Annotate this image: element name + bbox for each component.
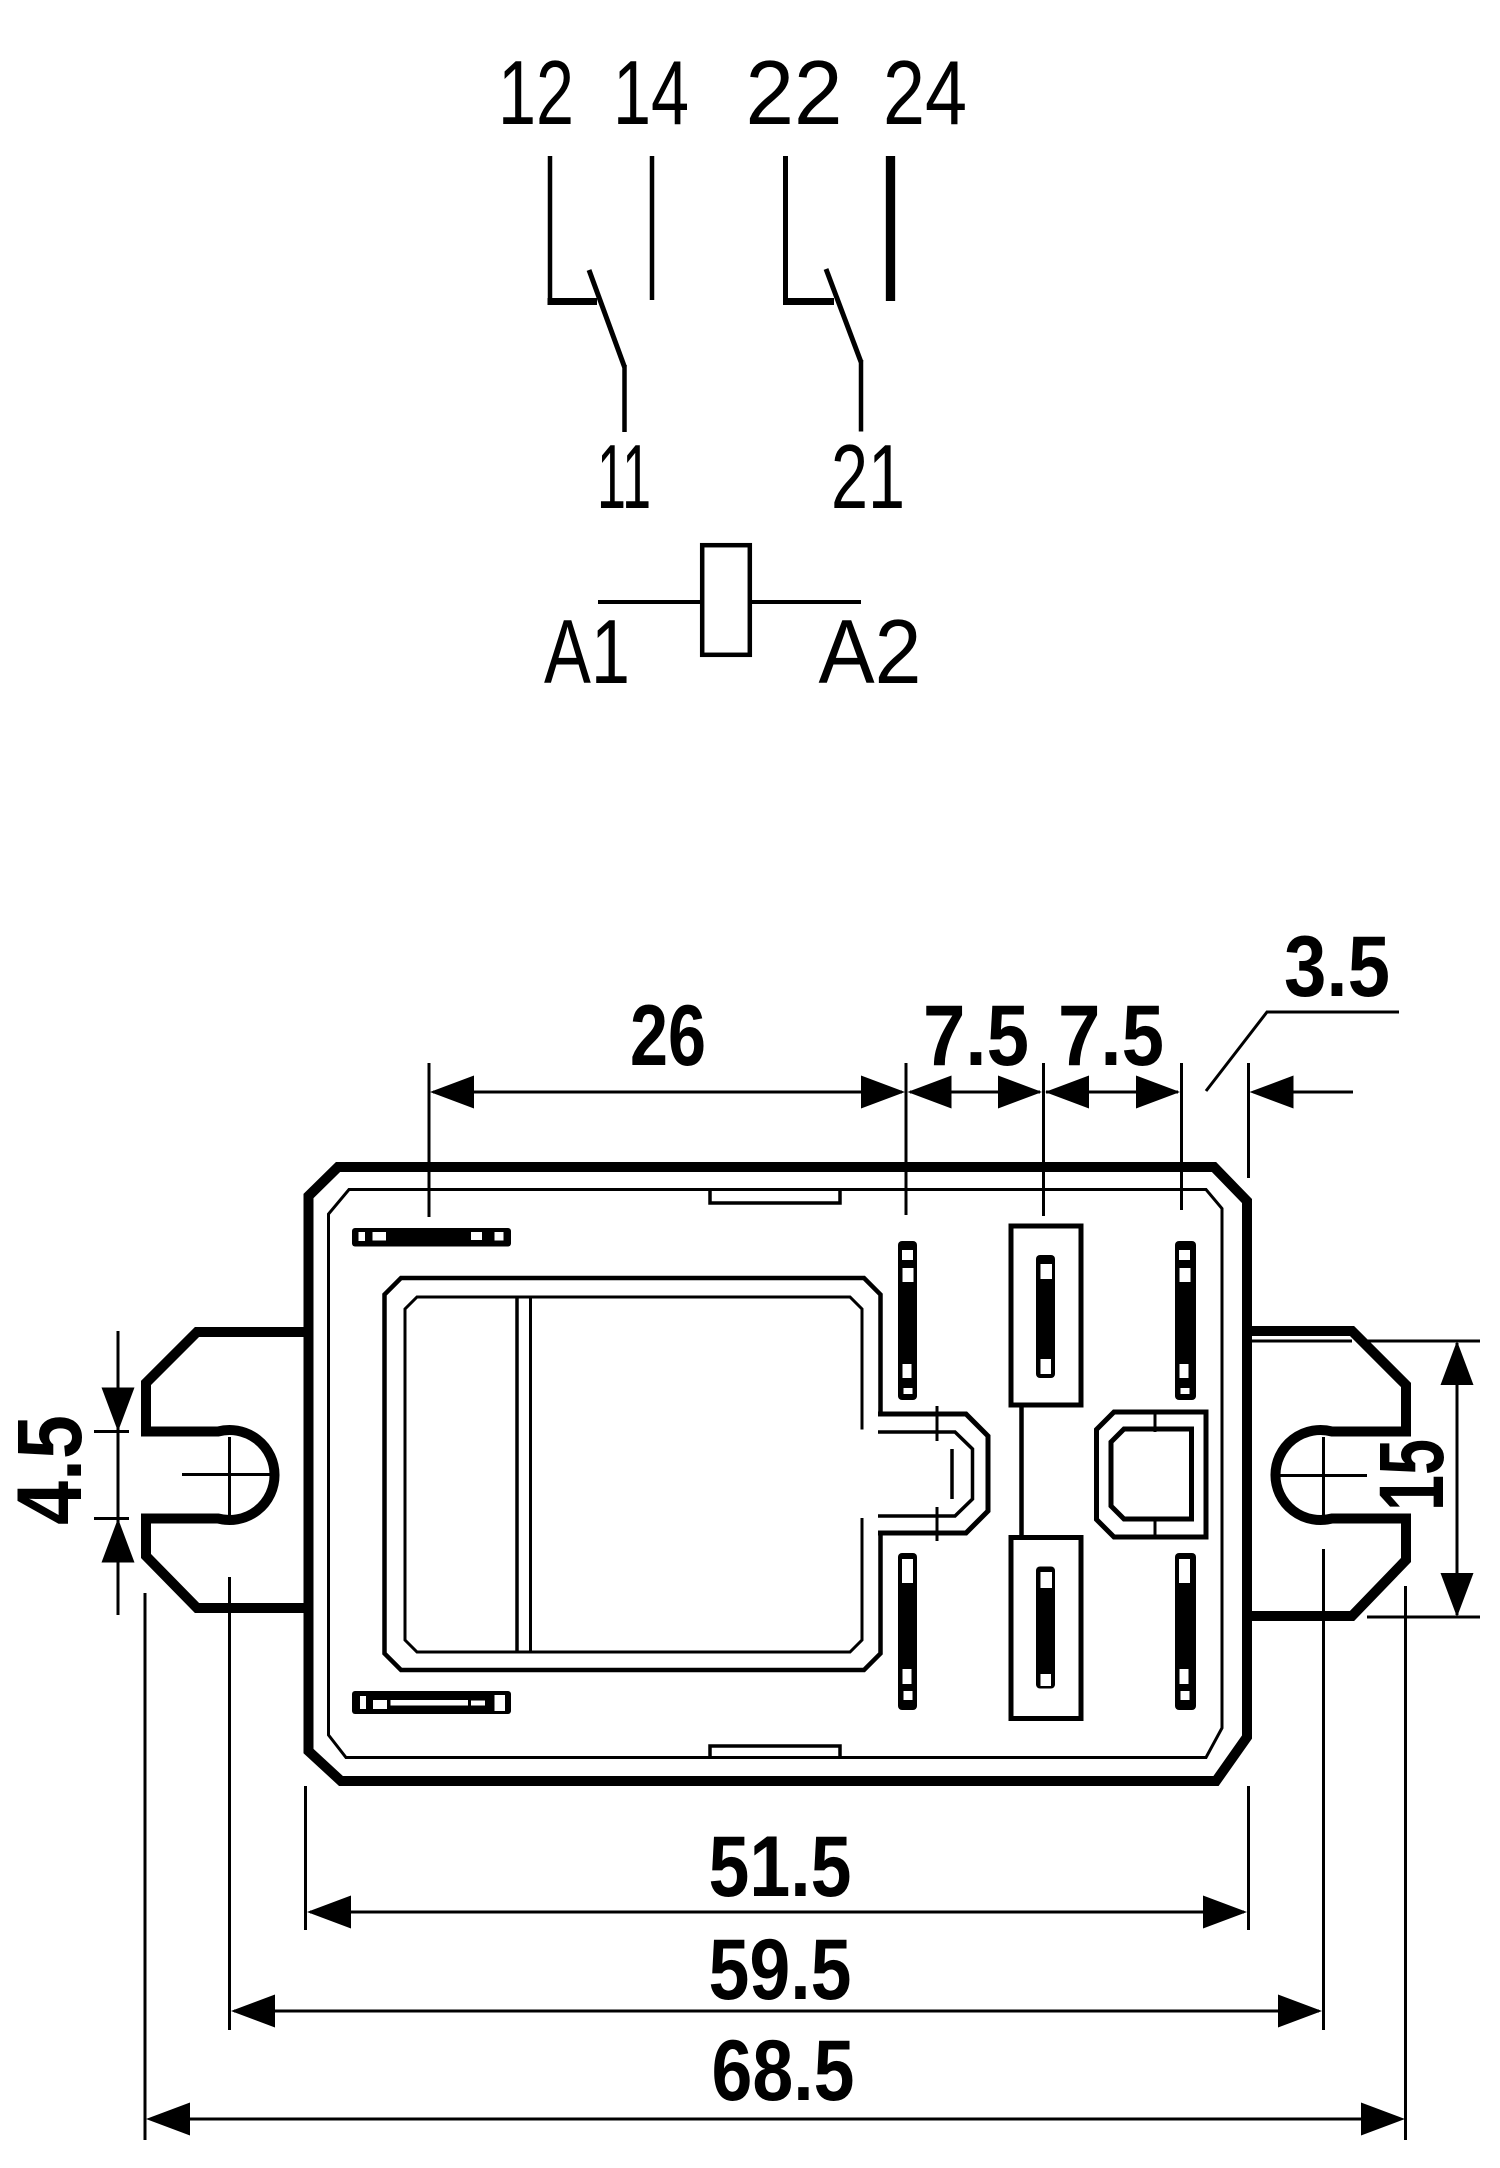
extension line 59.5 right upper	[1322, 1437, 1325, 1515]
extension line 51.5 left	[304, 1786, 307, 1930]
dimension line 7.5 right	[1046, 1091, 1178, 1094]
dimension line 7.5 left	[910, 1091, 1040, 1094]
arrow 68.5 left	[146, 2103, 190, 2136]
left mounting flange	[146, 1332, 308, 1608]
arrow 51.5 left	[307, 1896, 351, 1929]
marking slot top	[352, 1228, 511, 1247]
svg-text:7.5: 7.5	[1058, 988, 1164, 1084]
dimension tail 3.5	[1253, 1091, 1353, 1094]
coil terminal A1 housing	[1011, 1226, 1081, 1405]
wire terminal 24	[886, 156, 895, 301]
arrow 15 bottom	[1441, 1573, 1474, 1617]
arrow 26 left	[430, 1076, 474, 1109]
arrow 7.5R right	[1136, 1076, 1180, 1109]
arrow 68.5 right	[1361, 2103, 1405, 2136]
arrow 15 top	[1441, 1341, 1474, 1385]
tab tick top	[936, 1406, 939, 1441]
svg-text:59.5: 59.5	[709, 1922, 852, 2018]
wire terminal 22	[783, 156, 788, 299]
dimension line 15	[1456, 1343, 1459, 1615]
left slot center cross horizontal	[182, 1473, 274, 1476]
svg-text:A2: A2	[819, 602, 922, 703]
relay cover outer outline	[385, 1278, 881, 1670]
extension line x1181.5	[1180, 1063, 1183, 1210]
extension line 59.5 left lower	[228, 1577, 231, 2030]
arrow 59.5 right	[1278, 1995, 1322, 2028]
svg-text:14: 14	[613, 43, 689, 144]
cover divider line a	[515, 1297, 519, 1652]
keyhole structure inner	[1111, 1429, 1192, 1519]
keyhole tick top	[1154, 1410, 1157, 1432]
extension line x429	[428, 1063, 431, 1217]
arrow 3.5	[1250, 1076, 1294, 1109]
relay body outer outline	[309, 1167, 1248, 1781]
extension line x1043.5	[1042, 1063, 1045, 1216]
coil terminal tab slot edge	[950, 1449, 954, 1499]
bottom edge notch	[710, 1746, 840, 1757]
svg-text:22: 22	[746, 43, 843, 144]
svg-text:12: 12	[498, 43, 574, 144]
terminal slot 14	[1175, 1241, 1196, 1400]
coil U1	[702, 545, 750, 655]
dimension line 4.5	[117, 1331, 120, 1615]
arrow 7.5L right	[998, 1076, 1042, 1109]
leader line 3.5	[1206, 1012, 1399, 1091]
wire elbow pole2	[783, 298, 834, 305]
wire terminal 14	[650, 156, 655, 300]
extension line 59.5 left upper	[228, 1437, 231, 1515]
SCHEMATIC SECTION	[498, 43, 967, 703]
arrow 4.5 top	[102, 1388, 135, 1432]
arrow 7.5R left	[1045, 1076, 1089, 1109]
svg-text:11: 11	[597, 427, 651, 528]
top edge notch	[710, 1191, 840, 1203]
coil wire A2	[752, 600, 861, 604]
coil terminal tab outer	[878, 1414, 988, 1533]
arrow 26 right	[861, 1076, 905, 1109]
arrow 59.5 left	[231, 1995, 275, 2028]
arrow 4.5 bottom	[102, 1519, 135, 1563]
extension line 15 top	[1360, 1340, 1480, 1343]
extension line 68.5 right	[1404, 1586, 1407, 2140]
dimension line 51.5	[310, 1911, 1244, 1914]
wire lead 11	[622, 365, 627, 432]
svg-text:A1: A1	[544, 602, 630, 703]
svg-text:4.5: 4.5	[0, 1415, 101, 1525]
keyhole tick bottom	[1154, 1517, 1157, 1539]
terminal slot 11	[898, 1553, 917, 1710]
terminal slot 12	[898, 1241, 917, 1400]
coil slot A2	[1036, 1567, 1055, 1689]
extension line 15 bottom	[1367, 1616, 1480, 1619]
coil slot A1	[1036, 1255, 1055, 1378]
svg-text:21: 21	[831, 427, 905, 528]
svg-text:26: 26	[630, 988, 706, 1084]
MECHANICAL DRAWING	[0, 919, 1480, 2140]
dimension line 59.5	[234, 2010, 1319, 2013]
extension line x906	[905, 1063, 908, 1215]
coil wire A1	[598, 600, 700, 604]
wire lead 21	[859, 360, 864, 432]
dimension line 68.5	[150, 2118, 1401, 2121]
left slot extension stub top	[94, 1430, 129, 1433]
svg-text:3.5: 3.5	[1284, 919, 1390, 1015]
dimension line 26	[433, 1091, 902, 1094]
contact arm pole1	[589, 270, 625, 367]
marking slot bottom	[352, 1691, 511, 1714]
extension line 59.5 right lower	[1322, 1549, 1325, 2030]
svg-text:51.5: 51.5	[709, 1819, 852, 1915]
coil trace wire	[1019, 1405, 1024, 1537]
tab tick bottom	[936, 1507, 939, 1541]
right slot center cross horizontal	[1272, 1474, 1367, 1477]
arrow 7.5L left	[908, 1076, 952, 1109]
svg-text:15: 15	[1361, 1439, 1463, 1511]
relay body inner outline	[329, 1190, 1223, 1758]
coil terminal A2 housing	[1011, 1538, 1081, 1719]
contact arm pole2	[826, 269, 861, 362]
arrow 51.5 right	[1203, 1896, 1247, 1929]
extension line 51.5 right	[1247, 1786, 1250, 1930]
cover divider line b	[529, 1297, 532, 1652]
svg-text:24: 24	[883, 43, 967, 144]
relay cover inner outline	[405, 1297, 862, 1652]
right mounting flange	[1247, 1331, 1406, 1616]
terminal slot 21	[1175, 1553, 1196, 1710]
right flange inner edge line	[1251, 1340, 1352, 1343]
extension line x1248.5	[1247, 1063, 1250, 1178]
left slot extension stub bottom	[94, 1517, 129, 1520]
wire elbow pole1	[548, 298, 598, 305]
coil terminal tab inner	[878, 1432, 973, 1516]
keyhole structure outer	[1097, 1412, 1207, 1537]
extension line 68.5 left	[144, 1593, 147, 2140]
svg-text:68.5: 68.5	[712, 2023, 855, 2119]
wire terminal 12	[548, 156, 553, 300]
svg-text:7.5: 7.5	[923, 988, 1029, 1084]
